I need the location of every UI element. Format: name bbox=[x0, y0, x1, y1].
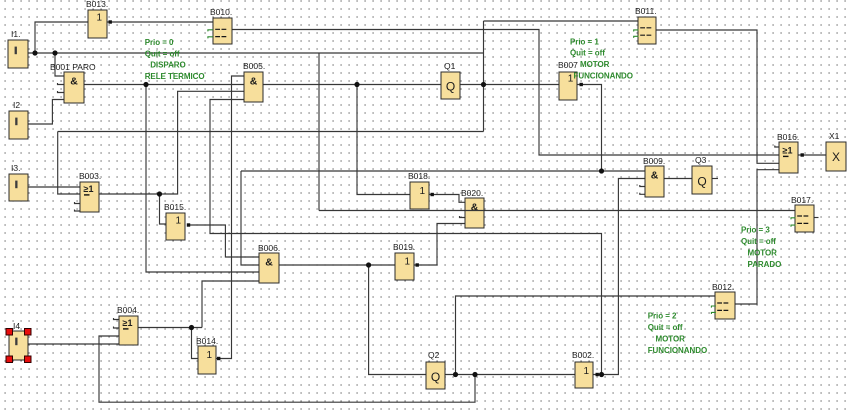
svg-text:I2: I2 bbox=[13, 100, 20, 110]
wire x57.7 down to B003 pin2 bbox=[58, 132, 80, 195]
node B006 out branch bbox=[366, 262, 371, 267]
wire Q3 out stub bbox=[712, 178, 718, 180]
wire B001 pin2 stub bbox=[58, 83, 65, 85]
wire B004 pin3 from below loop y401.5 bbox=[99, 336, 475, 402]
svg-text:PARADO: PARADO bbox=[748, 260, 782, 269]
svg-text:Q: Q bbox=[446, 80, 455, 94]
svg-text:B010.: B010. bbox=[210, 7, 232, 17]
svg-text:B006.: B006. bbox=[258, 243, 280, 253]
wire B019 out up to B020 pin4 bbox=[414, 224, 465, 266]
wire x191.5 down to B014 pin1 bbox=[192, 328, 199, 359]
svg-text:I1.: I1. bbox=[11, 29, 20, 39]
wire B016 pin1 stub bbox=[775, 146, 779, 148]
svg-text:Prio = 0: Prio = 0 bbox=[145, 38, 174, 47]
svg-text:MOTOR: MOTOR bbox=[580, 60, 610, 69]
svg-text:&: & bbox=[265, 257, 273, 269]
svg-text:B011.: B011. bbox=[635, 6, 657, 16]
wire B010 out right, down x539, right to B016 pin2 bbox=[232, 30, 779, 156]
block B017 message bbox=[791, 195, 814, 232]
wire B001 out to B005 pin2 bbox=[84, 84, 244, 86]
block B013 NOT bbox=[86, 0, 108, 38]
svg-text:FUNCIONANDO: FUNCIONANDO bbox=[574, 71, 633, 80]
svg-text:Quit = off: Quit = off bbox=[741, 237, 776, 246]
svg-text:B003.: B003. bbox=[79, 171, 101, 181]
svg-text:Q: Q bbox=[431, 370, 440, 384]
wire branch x146 down to y272 to B006 pin3 bbox=[146, 85, 259, 273]
wire B017 out stub bbox=[814, 217, 819, 219]
wire x210 B005 pin4 down, y233.5 right to x601 down to B002 out bbox=[210, 100, 602, 375]
node B001 out branch bbox=[143, 82, 148, 87]
pin B019 out marker bbox=[416, 263, 419, 266]
svg-text:B005.: B005. bbox=[243, 61, 265, 71]
svg-text:1: 1 bbox=[97, 13, 103, 24]
wire vertical x483 from y21 to y132 bbox=[483, 21, 485, 132]
svg-text:≥1: ≥1 bbox=[783, 146, 793, 156]
block B020 AND bbox=[461, 188, 484, 228]
input I4 (selected, red handles) bbox=[6, 321, 31, 363]
wire B015 out right down to B006 pin1 bbox=[189, 225, 259, 257]
node B004 out branch bbox=[189, 325, 194, 330]
wire y210 redrawn over B020 bbox=[465, 210, 484, 212]
wire B009 pin4 stub bbox=[640, 193, 645, 195]
svg-text:1: 1 bbox=[405, 257, 411, 268]
svg-text:I3.: I3. bbox=[11, 163, 20, 173]
svg-text:B002.: B002. bbox=[572, 350, 594, 360]
wire B016 out to X1 bbox=[798, 154, 826, 156]
wire y210 long line into B020/B017 bbox=[319, 210, 795, 212]
block B009 AND bbox=[643, 156, 665, 197]
svg-text:X: X bbox=[832, 150, 840, 164]
wire B009 pin3 stub bbox=[640, 185, 645, 187]
wire B002 out right to x618 up to B009 pin2 bbox=[593, 179, 645, 375]
svg-text:B018.: B018. bbox=[408, 171, 430, 181]
svg-text:&: & bbox=[651, 170, 659, 182]
svg-text:B013.: B013. bbox=[86, 0, 108, 9]
wire B003 pin3 stub bbox=[75, 202, 81, 204]
wire B003 out to x177 up to B005 pin3 bbox=[99, 91, 244, 194]
block B018 NOT bbox=[408, 171, 430, 209]
svg-text:Prio = 3: Prio = 3 bbox=[741, 226, 770, 235]
block B006 AND bbox=[258, 243, 280, 283]
svg-text:MOTOR: MOTOR bbox=[656, 335, 686, 344]
wire B003 pin4 stub bbox=[75, 210, 81, 212]
input I1 bbox=[8, 29, 28, 68]
svg-text:Quit = off: Quit = off bbox=[145, 49, 180, 58]
svg-text:B001 PARO: B001 PARO bbox=[50, 62, 96, 72]
node Q2 out branch 1 bbox=[453, 372, 458, 377]
output Q2 bbox=[426, 350, 445, 389]
block B012 message bbox=[711, 282, 735, 319]
wire B014 out up to B005 pin1 bbox=[216, 76, 244, 359]
wire branch x368.6 down to Q2 input bbox=[369, 265, 426, 375]
wire I3 out to B003 pin1 bbox=[28, 186, 80, 188]
wire vertical x319: I1 net down to y210 bbox=[318, 53, 320, 211]
output Q3 bbox=[692, 155, 712, 194]
block B001 AND bbox=[50, 62, 96, 103]
wire B001 pin3 stub bbox=[58, 91, 65, 93]
wire branch up to B013 input bbox=[35, 22, 88, 53]
svg-text:Quit = off: Quit = off bbox=[648, 323, 683, 332]
svg-text:&: & bbox=[250, 76, 258, 88]
block B002 NOT bbox=[572, 350, 594, 388]
svg-text:Quit = off: Quit = off bbox=[570, 49, 605, 58]
wire x241 down to B006 pin2 bbox=[241, 171, 259, 265]
svg-text:Q: Q bbox=[697, 175, 706, 189]
wire B007 out right down to y171 bbox=[577, 85, 602, 172]
svg-text:≥1: ≥1 bbox=[84, 184, 94, 194]
node B003 out branch bbox=[157, 191, 162, 196]
wire B018 out to B020 pin1 bbox=[429, 195, 465, 203]
svg-text:B015.: B015. bbox=[164, 202, 186, 212]
wire B006 out to B019 pin1 bbox=[279, 264, 395, 266]
wire I1 out to x319 then right to x483 bbox=[28, 52, 484, 54]
node B002 out junction bbox=[599, 372, 604, 377]
wire B004 out to x202 bbox=[138, 327, 202, 329]
wire B004 pin1 stub bbox=[114, 318, 120, 320]
pin B018 out marker bbox=[431, 193, 434, 196]
block B014 NOT bbox=[196, 336, 218, 374]
svg-text:1: 1 bbox=[176, 216, 182, 227]
wire y132 from x57.7 to x483 bbox=[58, 131, 484, 133]
pin B016 out marker bbox=[801, 153, 804, 156]
svg-text:&: & bbox=[70, 76, 78, 88]
svg-text:&: & bbox=[471, 202, 479, 214]
svg-text:B016.: B016. bbox=[777, 132, 799, 142]
block B005 AND bbox=[243, 61, 265, 102]
svg-text:I4: I4 bbox=[13, 321, 20, 331]
wire Q1 out to B007 bbox=[460, 84, 559, 86]
svg-text:B007: B007 bbox=[558, 60, 578, 70]
pin B013 out marker bbox=[109, 20, 112, 23]
svg-text:FUNCIONANDO: FUNCIONANDO bbox=[648, 346, 707, 355]
svg-text:DISPARO: DISPARO bbox=[150, 61, 186, 70]
wire B012 out right up x757 to B016 pin4 bbox=[735, 170, 779, 304]
svg-text:≥1: ≥1 bbox=[123, 318, 133, 328]
input I2 bbox=[9, 100, 28, 139]
wire B011 out right down x757 to B016 pin3 bbox=[656, 30, 779, 163]
svg-text:B012.: B012. bbox=[712, 282, 734, 292]
wire x202 up to B006 pin4 bbox=[202, 281, 259, 328]
svg-text:B009.: B009. bbox=[643, 156, 665, 166]
svg-text:B004.: B004. bbox=[117, 305, 139, 315]
svg-text:1: 1 bbox=[207, 350, 213, 361]
svg-text:MOTOR: MOTOR bbox=[748, 249, 778, 258]
pin B014 out marker bbox=[217, 357, 220, 360]
wire branch x455.5 up to y296 to B012 pin1 bbox=[456, 296, 716, 375]
svg-text:B020.: B020. bbox=[461, 188, 483, 198]
wire B005 out to Q1 bbox=[263, 84, 441, 86]
block B015 NOT bbox=[164, 202, 186, 240]
wire B020 pin3 stub bbox=[460, 216, 466, 218]
block B004 OR bbox=[117, 305, 139, 345]
block B007 pulse relay bbox=[558, 60, 578, 100]
wire B004 pin2 stub bbox=[114, 327, 120, 329]
node Q2 out branch 2 bbox=[472, 372, 477, 377]
svg-text:B017.: B017. bbox=[791, 195, 813, 205]
svg-text:RELE TERMICO: RELE TERMICO bbox=[145, 72, 205, 81]
svg-text:B019.: B019. bbox=[393, 242, 415, 252]
wire branch x357 down to B018 pin1 bbox=[357, 85, 410, 195]
pin B007 out marker bbox=[580, 83, 583, 86]
node B005 out branch bbox=[354, 82, 359, 87]
wire I4 out to B004 pin4 bbox=[28, 343, 119, 345]
block B019 NOT bbox=[393, 242, 415, 280]
block B003 OR bbox=[79, 171, 101, 212]
block B011 message bbox=[634, 6, 657, 44]
wire I2 out up to B001 pin4 bbox=[28, 100, 64, 125]
svg-text:Q1: Q1 bbox=[444, 61, 456, 71]
input I3 bbox=[9, 163, 28, 201]
node Q1 out branch bbox=[481, 82, 486, 87]
block B016 OR bbox=[777, 132, 799, 173]
wire Q2 out to B002 bbox=[445, 374, 575, 376]
node I1-B013 branch bbox=[32, 50, 37, 55]
node B007 out junction bbox=[599, 168, 604, 173]
wire B013 out to B010 in bbox=[107, 21, 213, 23]
svg-text:X1: X1 bbox=[829, 131, 840, 141]
wire y171 from x241 to B009 pin1 bbox=[241, 170, 645, 172]
wire branch x55 down to B001 pin1 bbox=[55, 53, 64, 76]
svg-text:Q3: Q3 bbox=[695, 155, 707, 165]
node I1 wire junction bbox=[52, 50, 57, 55]
svg-text:Prio = 1: Prio = 1 bbox=[570, 37, 599, 46]
svg-text:1: 1 bbox=[584, 366, 590, 377]
wire y21 right to B011 input bbox=[484, 20, 639, 22]
wire branch dot159 down to B015 pin1 bbox=[160, 194, 167, 224]
block B010 message bbox=[208, 7, 232, 44]
svg-text:1: 1 bbox=[420, 186, 426, 197]
pin B002 out marker bbox=[596, 373, 599, 376]
svg-text:Prio = 2: Prio = 2 bbox=[648, 312, 677, 321]
wire B009 out to Q3 bbox=[664, 178, 692, 180]
pin B015 out marker bbox=[187, 223, 190, 226]
output Q1 bbox=[441, 61, 460, 99]
svg-text:B014.: B014. bbox=[196, 336, 218, 346]
output X1 bbox=[826, 131, 846, 171]
svg-text:Q2: Q2 bbox=[428, 350, 440, 360]
